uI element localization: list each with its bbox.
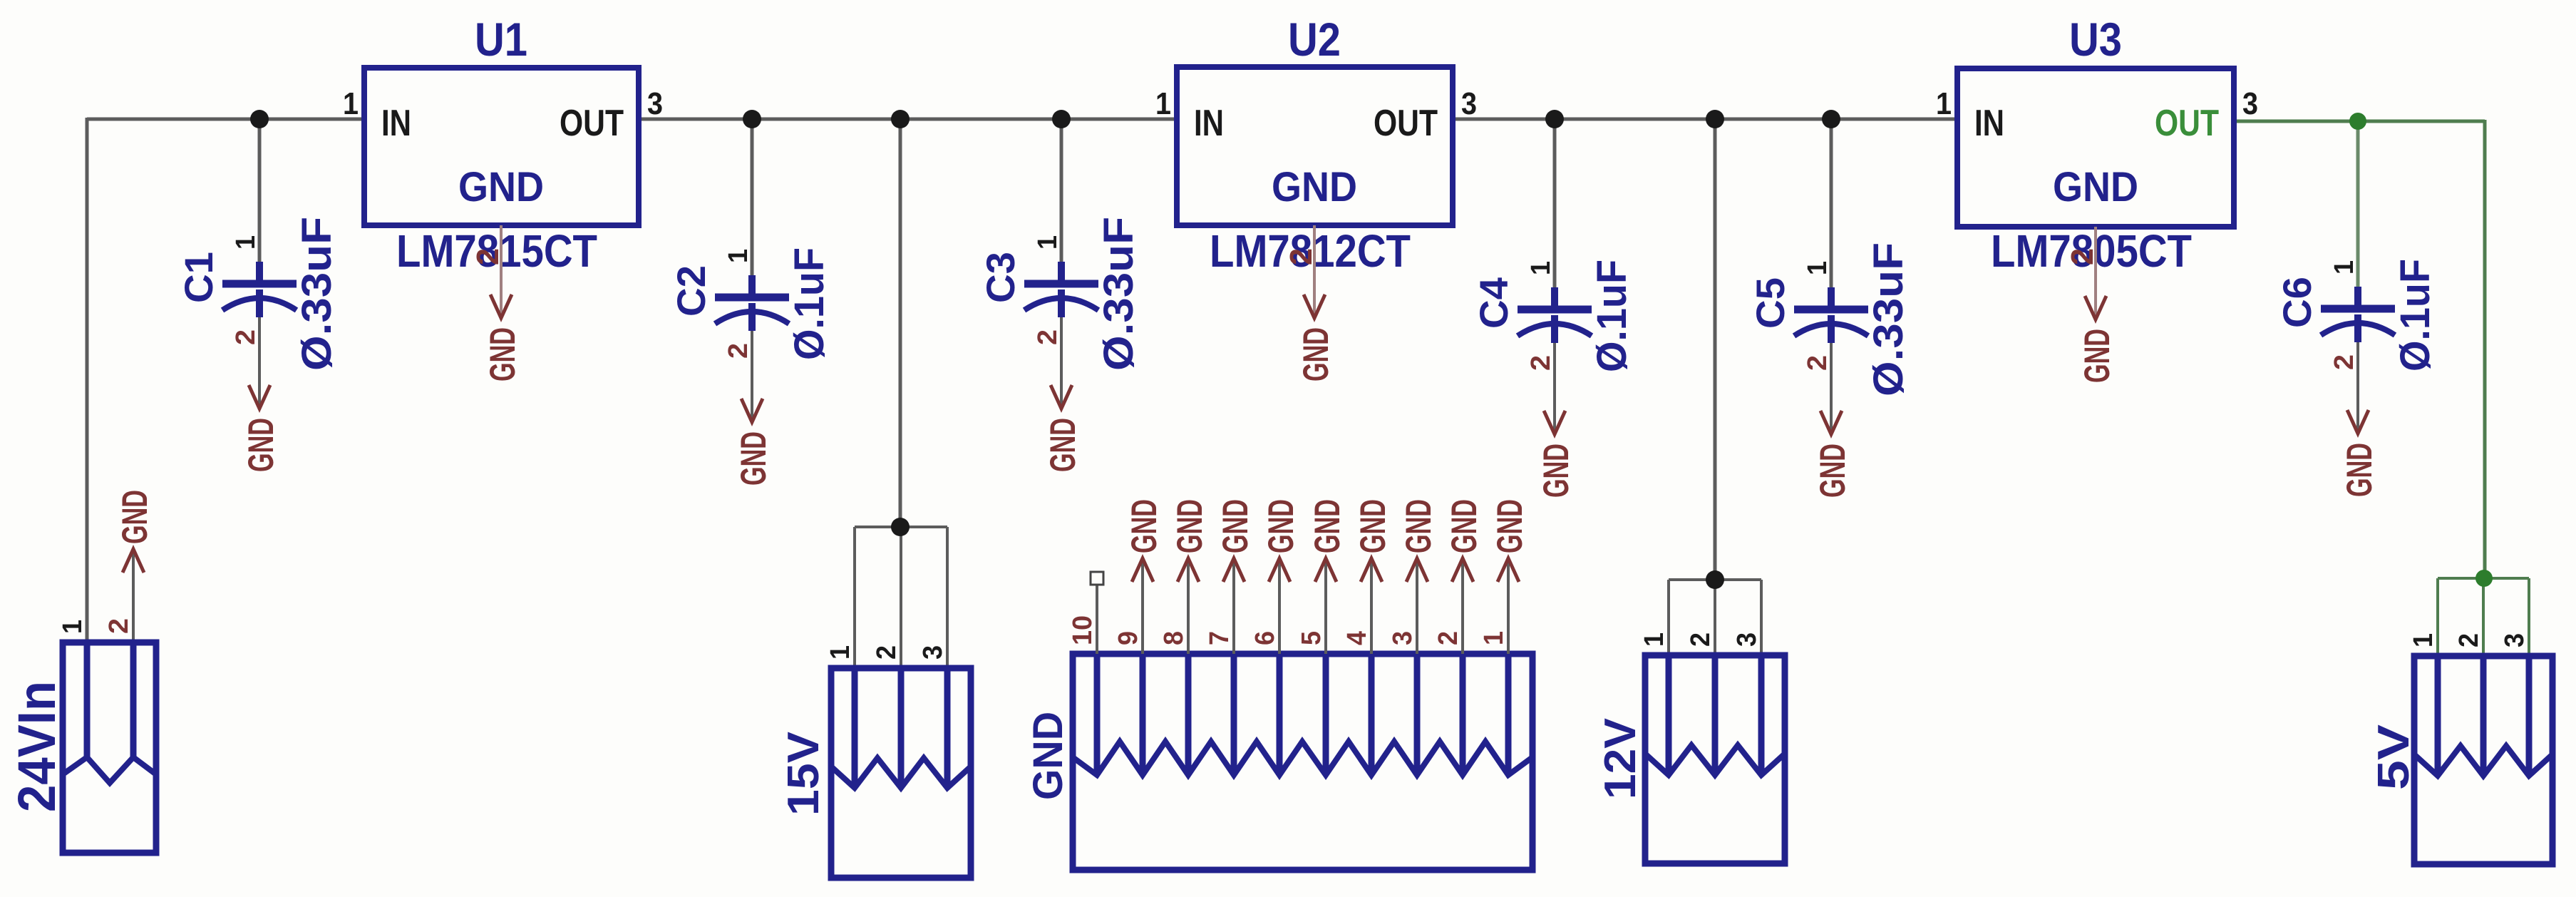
ground arrow under C4 [1544, 411, 1565, 434]
ground arrow under U3 [2085, 296, 2106, 319]
wire green 5V connector bus [2438, 577, 2529, 580]
wire C6 pin2 to GND arrow [2356, 342, 2359, 434]
label C5 value Ø.33uF [1865, 242, 1912, 396]
pin 3 label of U3 [2242, 86, 2258, 121]
junction dot green 5V bus [2475, 570, 2493, 587]
svg-text:3: 3 [647, 86, 663, 121]
ground label under U2 [1296, 327, 1336, 381]
svg-text:GND: GND [1215, 499, 1255, 553]
pin 3 label of 15V connector [918, 645, 948, 660]
label 15V connector [779, 732, 828, 816]
svg-text:9: 9 [1113, 631, 1143, 645]
wire C4 pin2 to GND arrow [1553, 342, 1556, 434]
svg-text:GND: GND [733, 431, 773, 486]
svg-text:GND: GND [1025, 712, 1071, 800]
ground label under C6 [2339, 443, 2379, 497]
svg-text:3: 3 [918, 645, 948, 660]
no-connect square on GND pin 10 [1091, 572, 1103, 585]
ground label above GND connector pin 2 [1444, 499, 1484, 553]
label U1 value LM7815CT [396, 225, 597, 277]
svg-text:10: 10 [1068, 615, 1098, 645]
svg-text:GND: GND [1444, 499, 1484, 553]
pin 2 label of C6 [2329, 354, 2359, 370]
ground label under C4 [1536, 444, 1576, 498]
pin 1 label of C2 [723, 249, 753, 263]
op-amp regulator U2 body [1177, 67, 1453, 225]
wire GND connector pin 3 stub [1416, 558, 1418, 654]
svg-text:Ø.33uF: Ø.33uF [294, 217, 340, 371]
label C4 reference [1471, 277, 1516, 329]
ground arrow above GND connector pin 8 [1178, 558, 1199, 582]
ground arrow under U2 [1304, 294, 1325, 318]
svg-text:1: 1 [723, 249, 753, 263]
svg-text:OUT: OUT [1374, 103, 1438, 144]
ground label above GND connector pin 1 [1490, 499, 1530, 553]
svg-text:Ø.33uF: Ø.33uF [1096, 217, 1142, 371]
wire C3 pin2 to GND arrow [1060, 317, 1063, 409]
svg-text:3: 3 [1388, 631, 1418, 645]
ground label under C3 [1043, 418, 1083, 472]
wire 24VIn pin2 to GND arrow [132, 549, 135, 645]
label C4 value Ø.1uF [1589, 260, 1635, 372]
wire GND connector pin 7 stub [1232, 558, 1235, 654]
wire U2.OUT to U3.IN rail [1451, 118, 1959, 121]
svg-text:IN: IN [1194, 103, 1224, 144]
pin 1 label of 15V connector [825, 645, 855, 660]
label 24VIn connector [7, 681, 66, 812]
pin 1 label of GND connector [1479, 631, 1509, 645]
svg-text:Ø.33uF: Ø.33uF [1865, 242, 1912, 396]
ground label under U3 [2077, 329, 2117, 383]
pin 1 label of C3 [1033, 235, 1063, 250]
label C3 reference [978, 252, 1023, 303]
pin 2 label of 5V connector [2454, 633, 2484, 647]
svg-text:U2: U2 [1288, 13, 1341, 66]
ground arrow above GND connector pin 7 [1223, 558, 1245, 582]
svg-text:GND: GND [1272, 164, 1357, 210]
label U1 reference [475, 13, 527, 66]
label 5V connector [2369, 724, 2418, 790]
svg-text:1: 1 [825, 645, 855, 660]
svg-text:2: 2 [1433, 631, 1463, 645]
svg-text:GND: GND [1043, 418, 1083, 472]
svg-text:2: 2 [1033, 329, 1063, 345]
wire GND connector pin 9 stub [1141, 558, 1144, 654]
junction dot at (1489,167) [1052, 110, 1071, 128]
pin 2 label of C3 [1033, 329, 1063, 345]
svg-text:C6: C6 [2274, 277, 2319, 328]
ground arrow above GND connector pin 1 [1498, 558, 1519, 582]
pin 1 label of U1 [343, 86, 359, 121]
svg-text:1: 1 [58, 620, 88, 634]
wire U3 GND pin stub [2094, 227, 2097, 319]
pin 3 label of GND connector [1388, 631, 1418, 645]
wire GND connector pin 6 stub [1278, 558, 1281, 654]
connector J5 5V body [2414, 656, 2552, 864]
ground label under C2 [733, 431, 773, 486]
svg-text:1: 1 [231, 235, 261, 250]
ground arrow under U1 [490, 294, 512, 318]
pin 2 label of GND connector [1433, 631, 1463, 645]
pin 3 label of U2 [1461, 86, 1477, 121]
pin 2 label of U1 [470, 248, 505, 265]
ground arrow above GND connector pin 4 [1361, 558, 1382, 582]
label U2 value LM7812CT [1210, 225, 1411, 277]
label U2 reference [1288, 13, 1341, 66]
pin 8 label of GND connector [1159, 631, 1189, 645]
wire GND connector pin 5 stub [1324, 558, 1327, 654]
svg-text:IN: IN [1974, 103, 2004, 144]
ground label above GND connector pin 7 [1215, 499, 1255, 553]
svg-text:2: 2 [1526, 355, 1556, 371]
capacitor C1 symbol [222, 262, 297, 317]
svg-text:2: 2 [1686, 632, 1716, 647]
pin 1 label of 12V connector [1639, 632, 1669, 647]
svg-text:GND: GND [1490, 499, 1530, 553]
pin 3 label of 5V connector [2500, 633, 2530, 647]
wire green U3.OUT rail [2232, 120, 2485, 123]
capacitor C2 symbol [715, 275, 789, 331]
connector J3 GND body [1073, 654, 1532, 870]
wire rail to C5 pin1 [1830, 119, 1833, 289]
ground label above GND connector pin 5 [1307, 499, 1347, 553]
wire main rail from 24VIn to U1.IN [87, 118, 366, 121]
svg-text:1: 1 [1639, 632, 1669, 647]
junction dot at (2181,167) [1545, 110, 1564, 128]
ground arrow under C3 [1051, 385, 1072, 409]
pin 3 label of 12V connector [1732, 632, 1762, 647]
wire U1.OUT to U2.IN rail [637, 118, 1178, 121]
pin 7 label of GND connector [1205, 631, 1235, 645]
svg-text:U1: U1 [475, 13, 527, 66]
pin 1 label of C4 [1526, 261, 1556, 275]
ground label above GND connector pin 8 [1170, 499, 1210, 553]
ground label above GND connector pin 4 [1353, 499, 1393, 553]
svg-text:5: 5 [1297, 631, 1326, 645]
pin 2 label of U3 [2065, 248, 2100, 265]
pin 5 label of GND connector [1297, 631, 1326, 645]
svg-text:GND: GND [2053, 164, 2138, 210]
wire 5V pin1 stub [2436, 578, 2439, 656]
wire GND connector pin 8 stub [1187, 558, 1190, 654]
pin 1 label of 24VIn connector [58, 620, 88, 634]
capacitor C3 symbol [1024, 262, 1098, 317]
svg-text:GND: GND [1536, 444, 1576, 498]
wire 5V pin3 stub [2528, 578, 2530, 656]
ground label under U1 [483, 327, 522, 381]
label U3 value LM7805CT [1991, 225, 2192, 277]
wire C2 pin2 to GND arrow [751, 330, 753, 422]
svg-text:3: 3 [1732, 632, 1762, 647]
svg-text:8: 8 [1159, 631, 1189, 645]
ground label under C5 [1813, 444, 1853, 498]
junction dot at (1263,167) [891, 110, 910, 128]
svg-text:GND: GND [1398, 499, 1438, 553]
label C6 value Ø.1uF [2392, 259, 2438, 371]
wire rail drop to 15V connector [899, 119, 902, 527]
svg-text:2: 2 [2329, 354, 2359, 370]
wire 15V pin1 stub [853, 527, 856, 671]
wire GND connector pin 4 stub [1370, 558, 1373, 654]
svg-text:U3: U3 [2069, 13, 2122, 66]
ground arrow under C5 [1820, 411, 1842, 434]
svg-text:C5: C5 [1748, 277, 1793, 329]
junction dot at (364,167) [250, 110, 269, 128]
svg-text:GND: GND [458, 164, 544, 210]
wire 15V connector bus [855, 526, 947, 528]
ground label above 24VIn pin2 [115, 490, 155, 544]
svg-text:2: 2 [104, 618, 134, 634]
svg-text:1: 1 [1936, 86, 1952, 121]
wire rail to C4 pin1 [1553, 119, 1557, 289]
svg-text:2: 2 [1803, 355, 1833, 371]
wire rail to C1 pin1 [258, 119, 262, 264]
ground arrow above GND connector pin 3 [1406, 558, 1428, 582]
wire 12V pin2 stub [1714, 580, 1716, 655]
wire U1 GND pin stub [500, 225, 503, 318]
svg-text:GND: GND [115, 490, 155, 544]
junction dot at (2569,167) [1822, 110, 1840, 128]
svg-text:GND: GND [1813, 444, 1853, 498]
connector J2 15V body [831, 668, 971, 878]
svg-text:GND: GND [1170, 499, 1210, 553]
svg-text:GND: GND [2077, 329, 2117, 383]
pin 2 label of C5 [1803, 355, 1833, 371]
pin 10 label of GND connector [1068, 615, 1098, 645]
ground label above GND connector pin 6 [1261, 499, 1301, 553]
svg-text:GND: GND [483, 327, 522, 381]
svg-text:1: 1 [1033, 235, 1063, 250]
connector J1 24VIn body [63, 642, 156, 853]
pin 2 label of C1 [231, 329, 261, 345]
wire vertical 24VIn pin1 riser [86, 118, 89, 644]
pin 2 label of C4 [1526, 355, 1556, 371]
wire 15V pin2 stub [900, 527, 902, 671]
ground arrow under C1 [249, 385, 270, 409]
wire rail drop to 12V connector [1714, 119, 1717, 580]
label C6 reference [2274, 277, 2319, 328]
pin 2 label of 24VIn connector [104, 618, 134, 634]
svg-text:3: 3 [1461, 86, 1477, 121]
wire rail to C2 pin1 [751, 119, 754, 277]
svg-text:1: 1 [343, 86, 359, 121]
junction dot at (1055,167) [743, 110, 761, 128]
svg-text:OUT: OUT [560, 103, 624, 144]
ground arrow above 24VIn pin2 [123, 549, 144, 573]
wire C5 pin2 to GND arrow [1830, 342, 1833, 434]
svg-text:GND: GND [1307, 499, 1347, 553]
connector J4 12V body [1645, 655, 1785, 863]
wire GND connector pin 10 stub [1096, 585, 1098, 654]
capacitor C6 symbol [2321, 287, 2395, 342]
svg-text:1: 1 [1526, 261, 1556, 275]
ground arrow under C6 [2347, 410, 2369, 434]
wire C1 pin2 to GND arrow [258, 317, 261, 409]
wire 12V pin1 stub [1667, 580, 1670, 655]
label C1 value Ø.33uF [294, 217, 340, 371]
pin 1 label of C1 [231, 235, 261, 250]
ground arrow above GND connector pin 6 [1269, 558, 1290, 582]
svg-text:GND: GND [241, 418, 281, 472]
svg-text:3: 3 [2242, 86, 2258, 121]
wire U2 GND pin stub [1313, 225, 1316, 318]
svg-text:12V: 12V [1596, 718, 1645, 799]
label C3 value Ø.33uF [1096, 217, 1142, 371]
junction dot at (2406,813) [1706, 570, 1724, 589]
wire GND connector pin 1 stub [1507, 558, 1510, 654]
svg-text:GND: GND [1124, 499, 1164, 553]
op-amp regulator U1 body [364, 68, 639, 225]
wire green drop to 5V connector [2483, 120, 2487, 578]
svg-text:5V: 5V [2369, 724, 2418, 790]
pin 9 label of GND connector [1113, 631, 1143, 645]
junction dot at (1263,739) [891, 518, 910, 536]
wire rail to C3 pin1 [1060, 119, 1063, 264]
label GND connector [1025, 712, 1071, 800]
label 12V connector [1596, 718, 1645, 799]
ground arrow above GND connector pin 5 [1315, 558, 1336, 582]
ground label under C1 [241, 418, 281, 472]
svg-text:2: 2 [872, 645, 902, 660]
wire GND connector pin 2 stub [1461, 558, 1464, 654]
junction dot green C6 node [2349, 113, 2366, 130]
svg-text:1: 1 [1155, 86, 1171, 121]
capacitor C4 symbol [1518, 287, 1592, 343]
capacitor C5 symbol [1794, 287, 1868, 343]
svg-text:Ø.1uF: Ø.1uF [786, 247, 833, 360]
label C2 value Ø.1uF [786, 247, 833, 360]
svg-text:1: 1 [2329, 260, 2359, 275]
pin 1 label of U2 [1155, 86, 1171, 121]
label C1 reference [176, 252, 221, 303]
svg-text:1: 1 [1803, 261, 1833, 275]
pin 2 label of C2 [723, 343, 753, 359]
svg-text:1: 1 [2408, 633, 2438, 647]
wire 12V connector bus [1669, 578, 1761, 581]
junction dot at (2406,167) [1706, 110, 1724, 128]
svg-text:1: 1 [1479, 631, 1509, 645]
pin 2 label of 12V connector [1686, 632, 1716, 647]
svg-text:GND: GND [2339, 443, 2379, 497]
ground arrow above GND connector pin 9 [1132, 558, 1153, 582]
svg-text:24VIn: 24VIn [7, 681, 66, 812]
svg-text:2: 2 [723, 343, 753, 359]
ground label above GND connector pin 3 [1398, 499, 1438, 553]
svg-text:C3: C3 [978, 252, 1023, 303]
wire 12V pin3 stub [1760, 580, 1763, 655]
wire 5V pin2 stub [2482, 578, 2485, 656]
svg-text:3: 3 [2500, 633, 2530, 647]
svg-text:IN: IN [381, 103, 411, 144]
wire green junction to C6 pin1 [2356, 121, 2360, 289]
svg-text:GND: GND [1353, 499, 1393, 553]
svg-text:C4: C4 [1471, 277, 1516, 329]
op-amp regulator U3 body [1957, 68, 2234, 227]
ground arrow under C2 [741, 399, 763, 422]
pin 1 label of U3 [1936, 86, 1952, 121]
svg-text:15V: 15V [779, 732, 828, 816]
pin 6 label of GND connector [1250, 631, 1280, 645]
svg-text:2: 2 [231, 329, 261, 345]
label C2 reference [669, 265, 713, 317]
ground label above GND connector pin 9 [1124, 499, 1164, 553]
pin 1 label of 5V connector [2408, 633, 2438, 647]
wire 15V pin3 stub [946, 527, 949, 671]
svg-text:2: 2 [2454, 633, 2484, 647]
pin 1 label of C5 [1803, 261, 1833, 275]
label C5 reference [1748, 277, 1793, 329]
svg-text:OUT: OUT [2155, 103, 2219, 144]
svg-text:6: 6 [1250, 631, 1280, 645]
svg-text:C2: C2 [669, 265, 713, 317]
pin 3 label of U1 [647, 86, 663, 121]
svg-text:C1: C1 [176, 252, 221, 303]
pin 2 label of U2 [1284, 248, 1319, 265]
svg-text:GND: GND [1261, 499, 1301, 553]
svg-text:4: 4 [1342, 631, 1372, 645]
ground arrow above GND connector pin 2 [1452, 558, 1473, 582]
svg-text:Ø.1uF: Ø.1uF [2392, 259, 2438, 371]
svg-text:7: 7 [1205, 631, 1235, 645]
label U3 reference [2069, 13, 2122, 66]
svg-text:Ø.1uF: Ø.1uF [1589, 260, 1635, 372]
pin 1 label of C6 [2329, 260, 2359, 275]
pin 4 label of GND connector [1342, 631, 1372, 645]
pin 2 label of 15V connector [872, 645, 902, 660]
svg-text:GND: GND [1296, 327, 1336, 381]
